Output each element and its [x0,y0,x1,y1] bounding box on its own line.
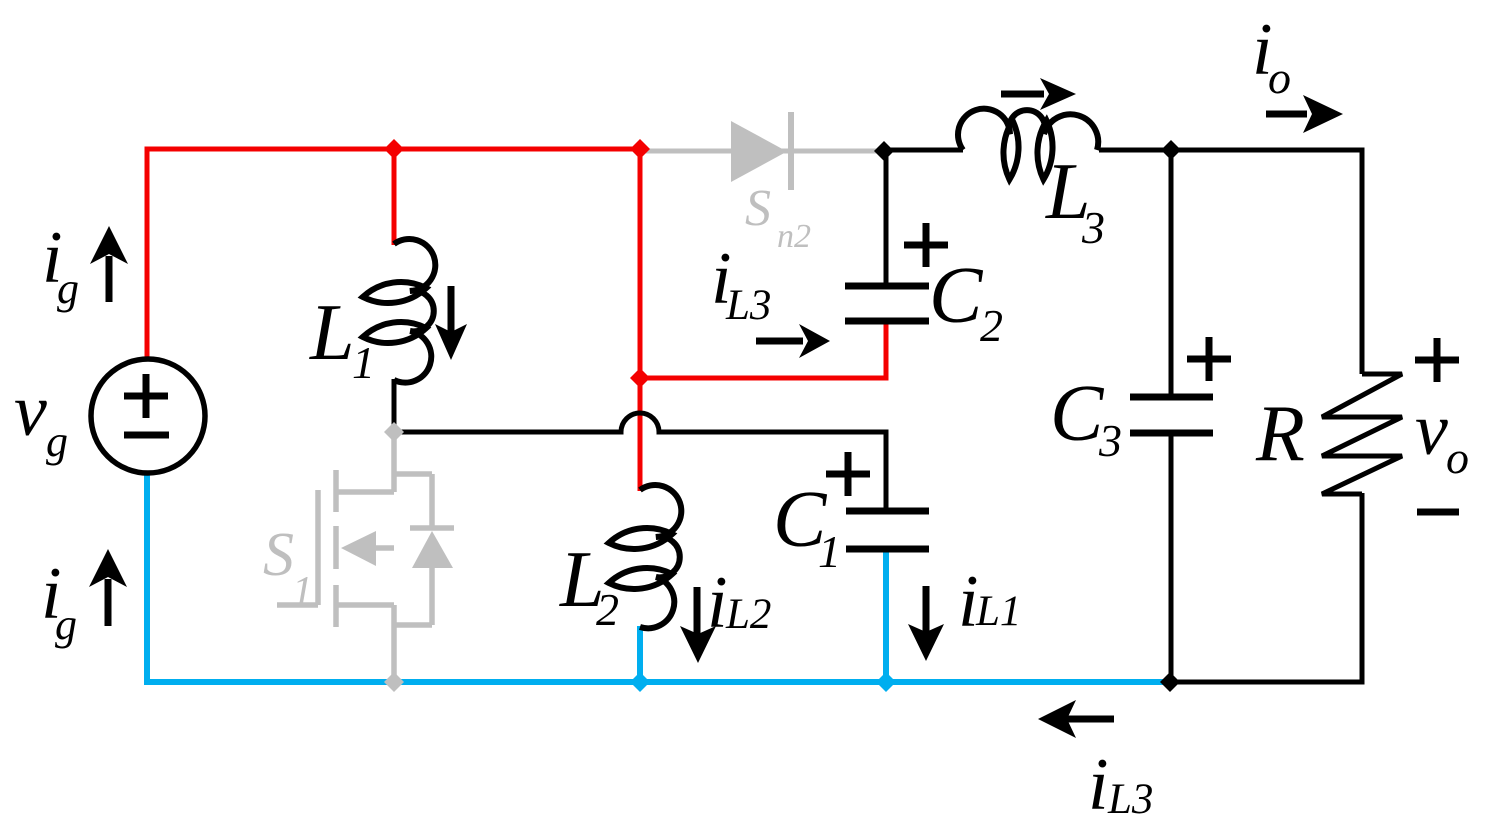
node: L3 out / C3 top [1161,140,1181,160]
svg-text:1: 1 [292,569,313,615]
arrow ig bottom [105,579,112,626]
inductor L1 [394,239,435,383]
svg-text:2: 2 [980,300,1003,351]
wire: bottom rail black part and resistor bottom lead [1170,493,1362,682]
node: top diode junction [630,139,650,159]
wire blue: C1 bottom to rail [883,549,889,682]
voltage source vg [91,359,205,473]
svg-text:g: g [57,264,79,313]
svg-text:1: 1 [818,526,841,577]
wire red: drop to L1 top [392,149,397,245]
minus vo [1417,509,1459,516]
plus vo [1415,338,1459,382]
node: L2 bottom rail [630,672,650,692]
svg-text:2: 2 [596,584,619,635]
svg-text:L2: L2 [725,591,771,638]
wire red: node A to C2 bottom plate [640,321,886,378]
svg-text:3: 3 [1081,202,1105,253]
wire: L1 bottom to mid rail with hop over red, then down to C1 [394,379,886,511]
svg-text:R: R [1255,390,1305,478]
plus C2 [904,223,948,267]
node: mosfet drain junction [384,422,404,442]
wire red: vg top up and along top rail to diode node [147,149,640,359]
wire: C2 top lead [884,150,889,286]
svg-text:L3: L3 [725,282,771,329]
svg-text:1: 1 [352,337,375,388]
node: mosfet source rail [384,672,404,692]
diode Sn2 [731,121,787,182]
arrow iL3 mid [756,338,803,345]
wire red: vertical from top node down through node A to L2 top [638,149,643,491]
inductor L2 [640,485,681,628]
wire: C3 top lead [1169,150,1174,397]
wire: diode cathode node to L3 [884,148,963,153]
svg-text:L: L [309,289,355,377]
inductor L3 [958,109,1098,150]
capacitor C3 [1130,397,1213,433]
node: C1 bottom rail [876,672,896,692]
svg-text:g: g [46,417,68,466]
node A: mid red junction [630,368,650,388]
svg-text:v: v [1415,389,1448,471]
svg-text:3: 3 [1098,415,1122,466]
svg-text:g: g [55,600,77,649]
svg-text:v: v [14,370,47,452]
arrow iL1 (L1 current) [448,286,455,334]
svg-text:S: S [745,180,771,237]
svg-text:i: i [707,562,728,644]
capacitor C2 [845,286,929,321]
node: C3 bottom rail [1160,672,1180,692]
svg-text:S: S [263,521,294,589]
svg-text:o: o [1268,52,1291,103]
node: top L1 junction [384,139,404,159]
wire blue: L2 bottom to rail [637,626,643,682]
transistor S1 (MOSFET with body diode) [277,432,454,682]
arrow io [1266,111,1307,118]
wire: L3 to output corner and down to resistor [1099,150,1362,374]
wire: C3 bottom lead [1169,433,1174,682]
arrow ig top [106,256,113,302]
arrow L3 current [1001,91,1044,98]
diode Sn2 wire [640,149,884,154]
svg-text:C: C [929,252,984,340]
arrow iL1 label arrow [923,586,930,632]
svg-text:C: C [1050,370,1105,458]
svg-text:L3: L3 [1107,776,1153,823]
arrow iL3 bottom [1062,716,1114,723]
node: diode cathode / C2 top [874,141,894,161]
capacitor C1 [846,511,929,549]
arrow iL2 [694,587,701,634]
plus C1 [826,452,870,496]
plus C3 [1187,337,1231,381]
wire blue: vg bottom down and along bottom rail [147,474,1170,682]
svg-text:i: i [1088,744,1109,826]
svg-text:n2: n2 [777,218,811,255]
svg-text:L1: L1 [975,588,1021,635]
svg-text:o: o [1446,432,1469,483]
resistor R [1322,374,1402,494]
